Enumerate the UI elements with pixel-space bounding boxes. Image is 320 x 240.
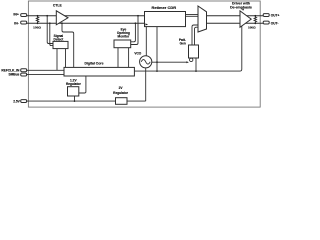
svg-text:OUT+: OUT+	[271, 14, 280, 18]
wire pattgen to mux lower	[195, 27, 199, 45]
svg-text:Digital Core: Digital Core	[84, 62, 103, 66]
arrow de-emphasis control	[242, 9, 244, 11]
svg-text:SMBus: SMBus	[8, 73, 19, 77]
mux trapezoid	[198, 6, 207, 32]
block Retimer CDR	[145, 12, 186, 27]
node dot reg rail join	[74, 100, 76, 102]
node dot SD tap top	[46, 15, 48, 17]
wire mux to driver top	[207, 15, 264, 17]
wire EOM tap lower	[131, 23, 136, 42]
node dot pattgen clock join	[195, 70, 197, 72]
pin OUT+	[263, 14, 269, 17]
block 1.2V Regulator	[68, 87, 79, 96]
svg-text:Regulator: Regulator	[66, 82, 82, 86]
oscillator VCO circle	[140, 56, 152, 68]
svg-text:IN+: IN+	[13, 13, 18, 17]
pin OUT-	[263, 21, 269, 24]
wire input top y15.8	[26, 15, 144, 17]
wire 2.5V rail	[26, 100, 146, 102]
node dot resistor top	[37, 15, 39, 17]
wire SD tap top	[47, 16, 53, 44]
svg-text:100Ω: 100Ω	[248, 25, 256, 29]
arrow retimer input	[145, 23, 148, 25]
wire SMBus	[26, 74, 64, 76]
svg-text:CTLE: CTLE	[53, 3, 63, 7]
resistor R term input 100 ohm	[36, 16, 38, 23]
block Digital Core	[64, 67, 134, 76]
op-amp CTLE triangle	[56, 11, 68, 25]
wire SD to refclk line	[56, 49, 58, 71]
wire input bottom y23.3	[26, 22, 144, 24]
node dot clock cross	[156, 61, 158, 63]
node dot out resistor bottom	[254, 22, 256, 24]
svg-text:Detect: Detect	[54, 37, 65, 41]
svg-text:Monitor: Monitor	[118, 35, 130, 39]
block 2V Regulator	[116, 98, 128, 105]
node dot resistor bottom	[37, 22, 39, 24]
wire SD to digital core	[65, 49, 67, 68]
node dot clock line join	[156, 70, 158, 72]
svg-text:100Ω: 100Ω	[33, 25, 41, 29]
wire retimer clock drop	[156, 27, 158, 72]
wire 1.2V reg to rail	[74, 96, 76, 101]
pin 2.5V	[21, 100, 27, 103]
resistor R term output 100 ohm	[254, 16, 256, 23]
arrow clock into pattgen	[186, 61, 189, 63]
svg-text:VCO: VCO	[134, 51, 141, 55]
svg-text:Gen: Gen	[180, 42, 186, 46]
op-amp driver triangle	[240, 11, 251, 27]
wire pattgen down to clock line	[195, 58, 197, 71]
wire retimer to VCO	[145, 27, 147, 56]
wire VCO to pattgen clock	[152, 61, 187, 63]
wire retimer to mux pair bottom	[186, 15, 199, 17]
wire digital core clock line	[134, 26, 241, 71]
chip outline	[28, 1, 260, 107]
node dot CTLE lower tap	[61, 22, 63, 24]
svg-text:IN-: IN-	[14, 22, 19, 26]
wire SD tap bottom	[50, 23, 53, 45]
wire REFCLK_IN	[26, 69, 64, 71]
svg-text:OUT-: OUT-	[271, 21, 279, 25]
wire CTLE tap to digital core	[62, 23, 74, 67]
block Eye Opening Monitor	[114, 40, 131, 48]
svg-text:Retimer CDR: Retimer CDR	[151, 5, 176, 10]
svg-text:2.5V: 2.5V	[13, 99, 20, 103]
pin SMBus	[21, 73, 27, 76]
node dot out resistor top	[254, 15, 256, 17]
pin IN+	[21, 14, 27, 17]
node dot EOM tap lower	[135, 22, 137, 24]
pin IN-	[21, 21, 27, 24]
svg-text:Regulator: Regulator	[113, 91, 129, 95]
clock bubble pattgen	[190, 58, 193, 61]
wire EOM to digital core left	[117, 48, 119, 68]
svg-text:De-emphasis: De-emphasis	[230, 6, 252, 10]
wire retimer to mux pair top	[186, 14, 199, 16]
block Signal Detect	[53, 41, 68, 48]
svg-text:2V: 2V	[119, 86, 124, 90]
block Pattern Generator	[189, 45, 199, 58]
wire 1.2V reg feedback	[79, 76, 86, 93]
wire EOM to digital core right	[128, 48, 130, 68]
sine wave in VCO	[141, 60, 150, 65]
pin REFCLK_IN	[21, 69, 27, 72]
wire mux to driver bottom	[207, 22, 264, 24]
wire pattgen to mux upper	[192, 25, 198, 45]
wire VCO down to rail	[145, 68, 147, 101]
node dot EOM tap upper	[137, 15, 139, 17]
wire EOM tap upper	[131, 16, 138, 45]
node dot SD tap bottom	[49, 22, 51, 24]
